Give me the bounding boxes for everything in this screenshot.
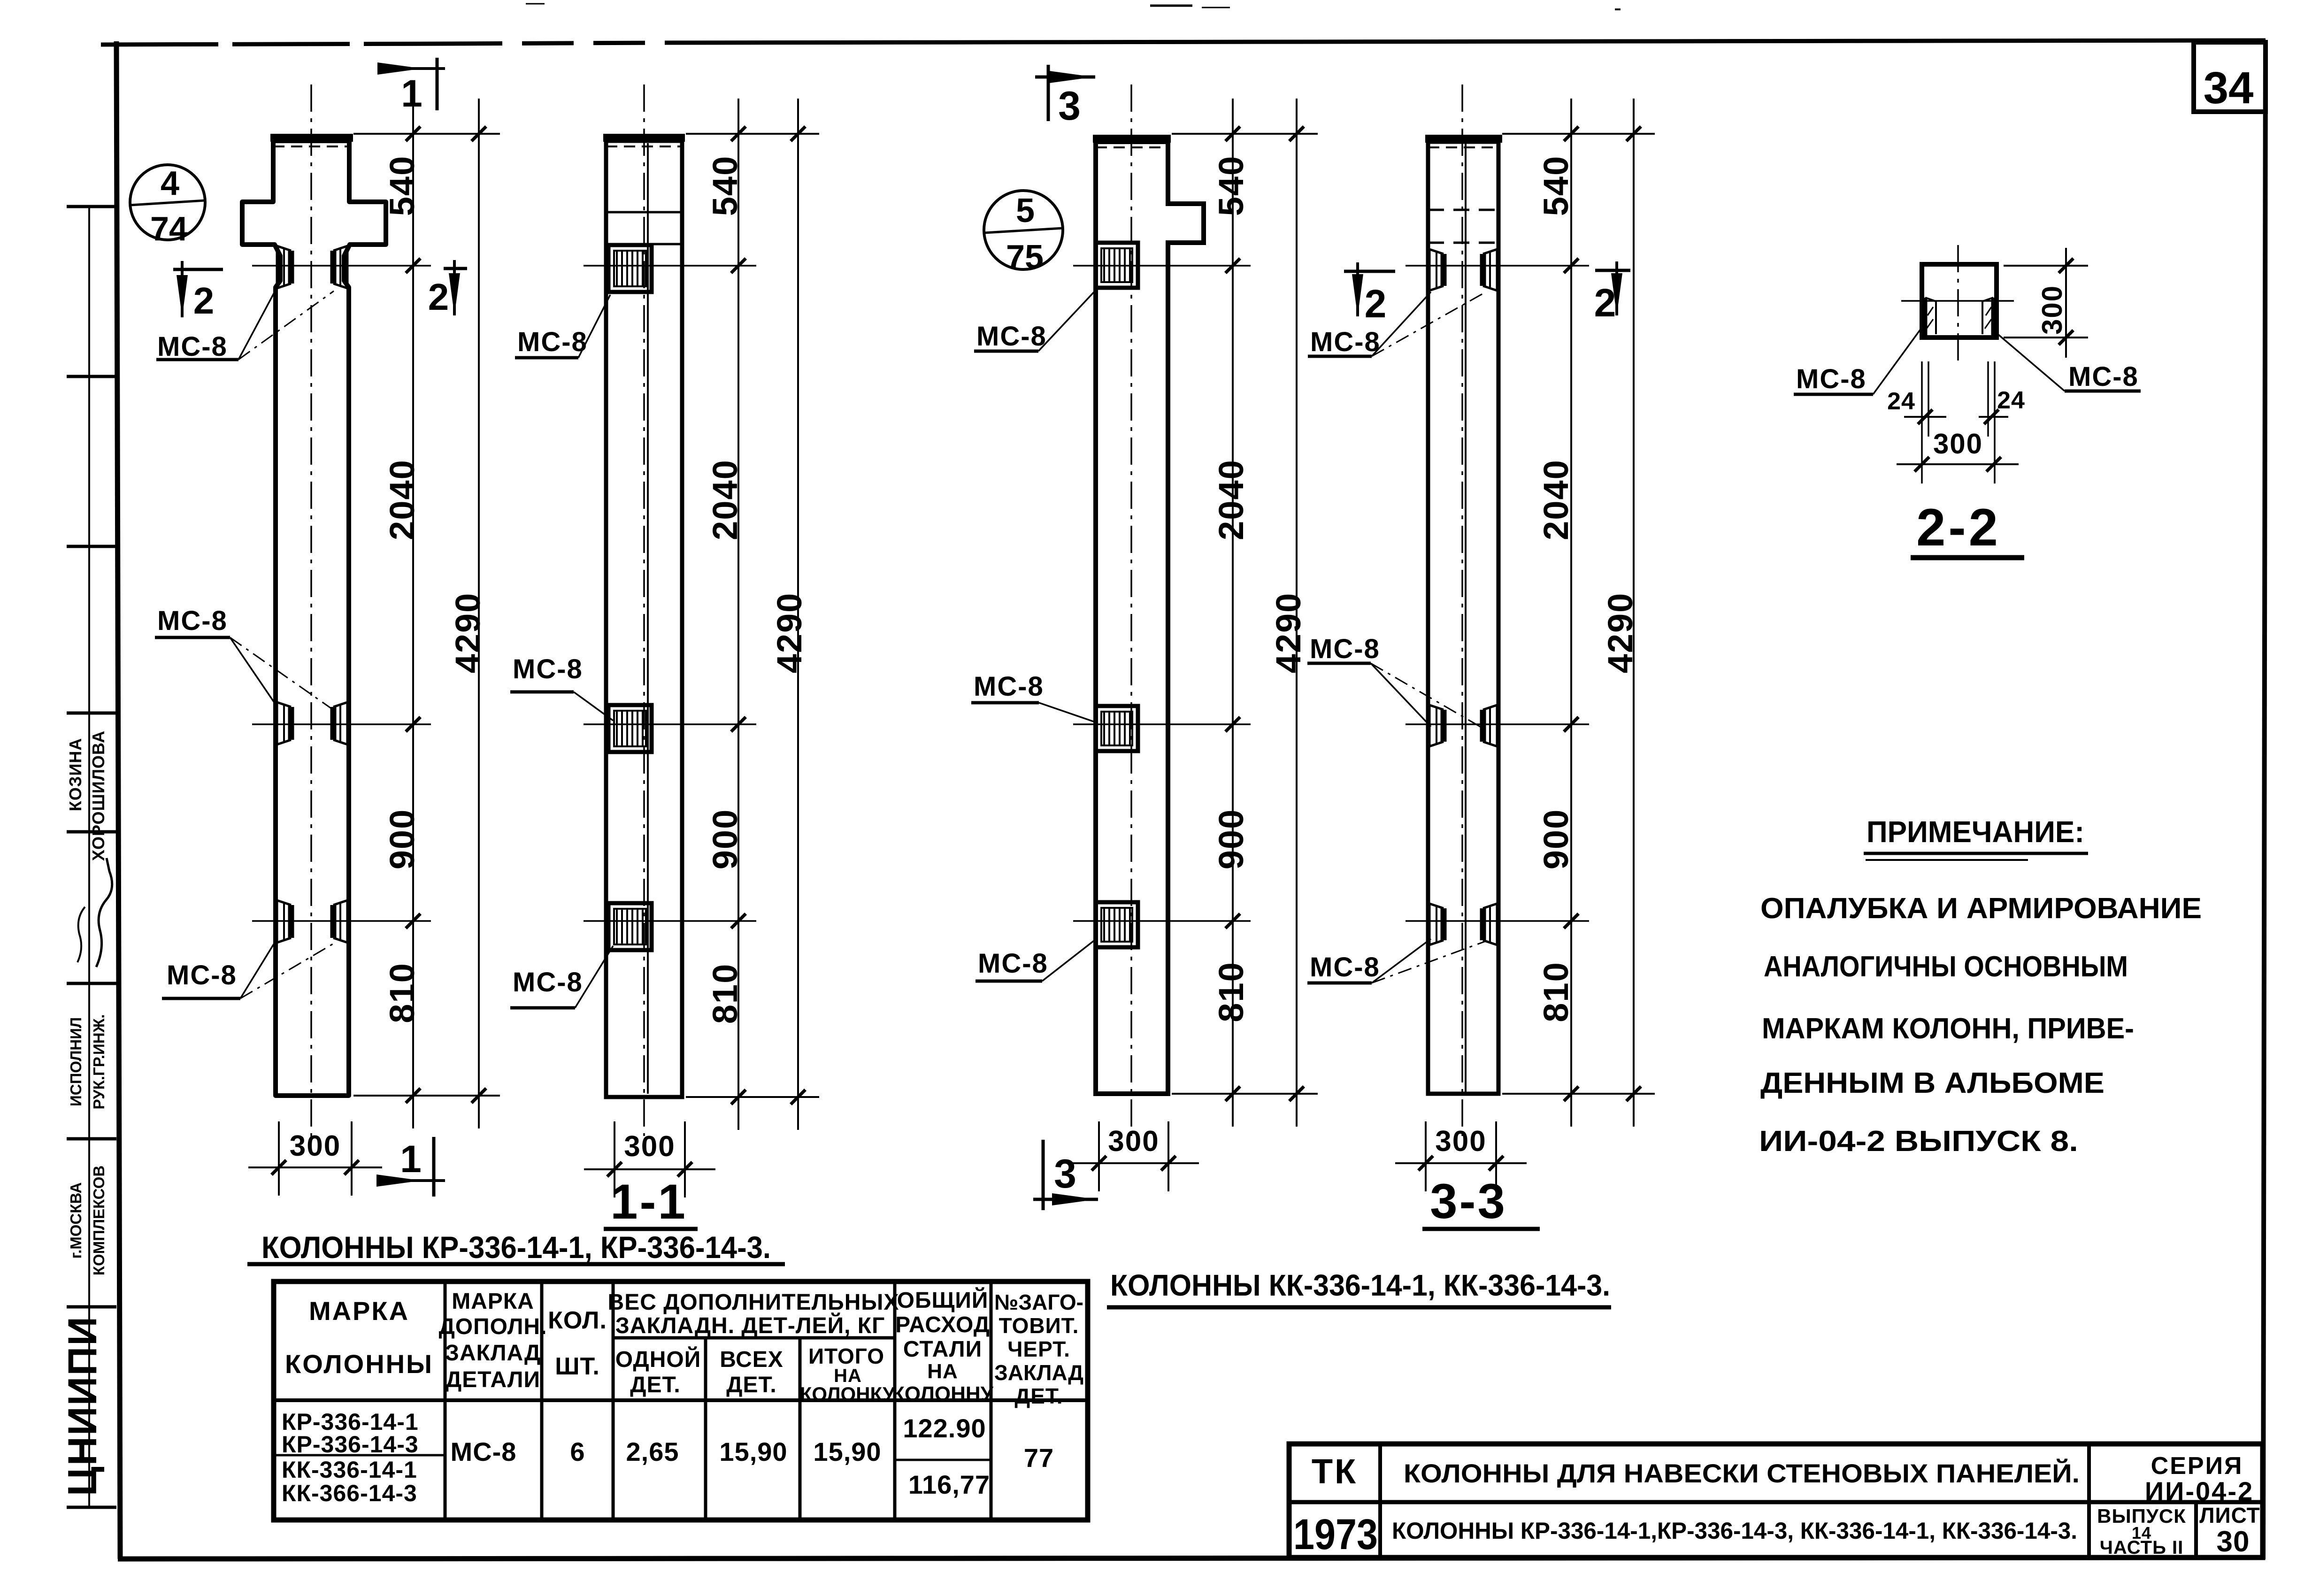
svg-text:№ЗАГО-: №ЗАГО- (994, 1290, 1083, 1314)
svg-text:MC-8: MC-8 (1310, 952, 1380, 982)
svg-text:24: 24 (1997, 387, 2025, 414)
svg-text:15,90: 15,90 (719, 1437, 787, 1466)
svg-text:810: 810 (383, 962, 422, 1023)
svg-text:900: 900 (1212, 809, 1251, 869)
svg-text:1: 1 (400, 1138, 422, 1181)
svg-text:MC-8: MC-8 (1310, 634, 1380, 664)
svg-text:ВЕС ДОПОЛНИТЕЛЬНЫХ: ВЕС ДОПОЛНИТЕЛЬНЫХ (608, 1290, 899, 1315)
svg-text:24: 24 (1887, 388, 1915, 415)
svg-text:ЗАКЛАДН. ДЕТ-ЛЕЙ, КГ: ЗАКЛАДН. ДЕТ-ЛЕЙ, КГ (615, 1312, 885, 1338)
svg-text:СЕРИЯ: СЕРИЯ (2151, 1452, 2243, 1480)
svg-text:КОЛОННЫ ДЛЯ НАВЕСКИ СТЕНОВЫХ П: КОЛОННЫ ДЛЯ НАВЕСКИ СТЕНОВЫХ ПАНЕЛЕЙ. (1404, 1458, 2080, 1488)
svg-text:КОЛОННЫ КР-336-14-1, КР-336-14: КОЛОННЫ КР-336-14-1, КР-336-14-3. (261, 1230, 771, 1265)
svg-text:300: 300 (624, 1130, 675, 1163)
svg-text:75: 75 (1006, 238, 1044, 276)
svg-text:КОЗИНА: КОЗИНА (66, 738, 85, 811)
svg-text:ДЕТ.: ДЕТ. (630, 1373, 680, 1397)
svg-text:1973: 1973 (1293, 1511, 1378, 1558)
svg-text:ТОВИТ.: ТОВИТ. (999, 1313, 1079, 1338)
svg-text:МАРКА: МАРКА (452, 1289, 534, 1314)
svg-text:1: 1 (401, 72, 422, 115)
svg-text:НА: НА (927, 1360, 958, 1383)
svg-text:3-3: 3-3 (1430, 1174, 1507, 1229)
svg-text:300: 300 (2036, 285, 2068, 335)
svg-text:2: 2 (428, 276, 449, 318)
svg-text:ЧЕРТ.: ЧЕРТ. (1007, 1337, 1070, 1361)
svg-text:MC-8: MC-8 (513, 654, 583, 684)
svg-text:ДОПОЛН.: ДОПОЛН. (439, 1314, 547, 1339)
svg-text:2: 2 (1594, 281, 1616, 325)
svg-text:300: 300 (1108, 1125, 1159, 1158)
svg-text:900: 900 (706, 809, 745, 869)
svg-text:ИИ-04-2 ВЫПУСК 8.: ИИ-04-2 ВЫПУСК 8. (1759, 1125, 2078, 1158)
svg-text:540: 540 (1212, 155, 1251, 216)
svg-text:ДЕТ.: ДЕТ. (1014, 1384, 1063, 1408)
svg-text:2040: 2040 (1536, 459, 1575, 540)
svg-text:КР-336-14-3: КР-336-14-3 (282, 1431, 419, 1458)
svg-text:ПРИМЕЧАНИЕ:: ПРИМЕЧАНИЕ: (1866, 815, 2084, 849)
svg-text:4290: 4290 (1269, 592, 1308, 674)
svg-text:КОЛ.: КОЛ. (548, 1307, 607, 1334)
svg-text:РАСХОД: РАСХОД (895, 1312, 990, 1337)
svg-text:810: 810 (706, 963, 745, 1024)
svg-text:ШТ.: ШТ. (555, 1353, 600, 1380)
svg-text:1-1: 1-1 (610, 1174, 687, 1229)
svg-text:ЧАСТЬ II: ЧАСТЬ II (2100, 1537, 2183, 1558)
svg-text:MC-8: MC-8 (2068, 361, 2139, 392)
svg-text:г.МОСКВА: г.МОСКВА (67, 1182, 84, 1259)
svg-text:2: 2 (193, 280, 215, 322)
svg-text:КОМПЛЕКСОВ: КОМПЛЕКСОВ (90, 1166, 108, 1275)
svg-text:КОЛОННЫ: КОЛОННЫ (285, 1349, 433, 1379)
svg-text:540: 540 (1536, 155, 1575, 216)
svg-text:КОЛОНКУ: КОЛОНКУ (800, 1383, 895, 1405)
svg-text:ДЕТАЛИ: ДЕТАЛИ (446, 1367, 540, 1392)
svg-text:MC-8: MC-8 (157, 606, 228, 636)
svg-text:MC-8: MC-8 (517, 327, 588, 357)
svg-text:ОБЩИЙ: ОБЩИЙ (897, 1287, 989, 1313)
svg-text:540: 540 (706, 155, 745, 216)
svg-text:15,90: 15,90 (813, 1437, 881, 1466)
svg-text:ЛИСТ: ЛИСТ (2199, 1503, 2260, 1527)
svg-text:MC-8: MC-8 (976, 321, 1047, 352)
svg-text:ДЕННЫМ В АЛЬБОМЕ: ДЕННЫМ В АЛЬБОМЕ (1760, 1067, 2105, 1099)
svg-text:2-2: 2-2 (1916, 498, 2001, 557)
svg-text:900: 900 (383, 809, 422, 869)
svg-text:ОДНОЙ: ОДНОЙ (615, 1346, 701, 1372)
svg-text:810: 810 (1536, 961, 1575, 1022)
svg-text:MC-8: MC-8 (513, 967, 583, 997)
svg-text:4: 4 (161, 165, 179, 202)
svg-text:ВСЕХ: ВСЕХ (720, 1347, 783, 1372)
svg-text:ЗАКЛАД: ЗАКЛАД (445, 1341, 541, 1366)
svg-text:74: 74 (150, 210, 188, 248)
svg-text:34: 34 (2204, 63, 2254, 113)
svg-text:РУК.ГР.ИНЖ.: РУК.ГР.ИНЖ. (90, 1014, 108, 1110)
svg-text:2040: 2040 (706, 459, 745, 540)
svg-text:MC-8: MC-8 (167, 960, 237, 990)
svg-text:MC-8: MC-8 (1310, 327, 1381, 357)
svg-text:ОПАЛУБКА И АРМИРОВАНИЕ: ОПАЛУБКА И АРМИРОВАНИЕ (1760, 892, 2202, 925)
svg-text:ИИ-04-2: ИИ-04-2 (2145, 1476, 2254, 1506)
svg-text:КОЛОННЫ КК-336-14-1, КК-336-14: КОЛОННЫ КК-336-14-1, КК-336-14-3. (1110, 1268, 1610, 1302)
svg-text:900: 900 (1536, 809, 1575, 869)
svg-text:30: 30 (2217, 1526, 2250, 1558)
svg-text:ХОРОШИЛОВА: ХОРОШИЛОВА (89, 730, 108, 861)
svg-text:540: 540 (383, 155, 422, 216)
svg-text:МАРКАМ КОЛОНН, ПРИВЕ-: МАРКАМ КОЛОНН, ПРИВЕ- (1762, 1013, 2134, 1045)
svg-text:МАРКА: МАРКА (309, 1296, 409, 1326)
svg-text:2,65: 2,65 (626, 1437, 679, 1466)
svg-text:ДЕТ.: ДЕТ. (726, 1373, 776, 1397)
svg-text:КК-336-14-1: КК-336-14-1 (282, 1457, 417, 1483)
svg-text:ЗАКЛАД: ЗАКЛАД (994, 1360, 1083, 1385)
svg-text:810: 810 (1212, 961, 1251, 1022)
svg-text:122.90: 122.90 (903, 1413, 986, 1443)
svg-text:3: 3 (1054, 1151, 1076, 1197)
svg-text:5: 5 (1016, 192, 1035, 230)
svg-text:4290: 4290 (770, 592, 809, 674)
svg-text:МС-8: МС-8 (451, 1437, 517, 1466)
svg-text:6: 6 (570, 1437, 584, 1466)
svg-text:КОЛОННЫ КР-336-14-1,КР-336-14-: КОЛОННЫ КР-336-14-1,КР-336-14-3, КК-336-… (1392, 1518, 2077, 1544)
svg-text:СТАЛИ: СТАЛИ (903, 1337, 982, 1362)
svg-text:77: 77 (1024, 1443, 1054, 1473)
svg-text:MC-8: MC-8 (978, 948, 1048, 979)
svg-text:4290: 4290 (1601, 592, 1640, 674)
svg-text:2: 2 (1365, 282, 1387, 326)
svg-text:300: 300 (290, 1130, 341, 1162)
svg-text:ИСПОЛНИЛ: ИСПОЛНИЛ (67, 1017, 84, 1106)
svg-text:ИТОГО: ИТОГО (808, 1344, 884, 1368)
svg-text:КОЛОННУ: КОЛОННУ (892, 1382, 994, 1405)
svg-text:2040: 2040 (383, 459, 422, 540)
svg-text:116,77: 116,77 (908, 1470, 990, 1499)
svg-text:2040: 2040 (1212, 459, 1251, 540)
svg-text:300: 300 (1933, 428, 1983, 460)
svg-text:АНАЛОГИЧНЫ ОСНОВНЫМ: АНАЛОГИЧНЫ ОСНОВНЫМ (1764, 951, 2128, 983)
svg-text:MC-8: MC-8 (157, 331, 228, 362)
svg-text:MC-8: MC-8 (974, 671, 1044, 702)
svg-text:ТК: ТК (1312, 1452, 1358, 1491)
svg-text:MC-8: MC-8 (1796, 364, 1866, 394)
svg-text:4290: 4290 (448, 592, 487, 674)
svg-text:ЦНИИПИ: ЦНИИПИ (60, 1316, 105, 1496)
svg-text:300: 300 (1435, 1125, 1486, 1158)
svg-text:КК-366-14-3: КК-366-14-3 (282, 1480, 417, 1506)
svg-text:3: 3 (1058, 84, 1081, 129)
